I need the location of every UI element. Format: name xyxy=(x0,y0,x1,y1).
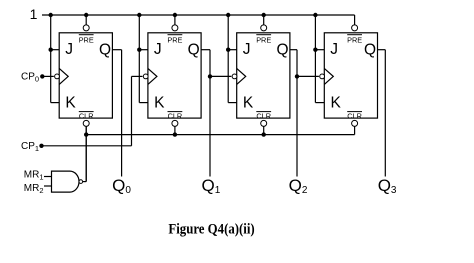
svg-text:J: J xyxy=(154,41,162,58)
svg-text:PRE: PRE xyxy=(256,36,271,45)
svg-text:K: K xyxy=(65,94,76,111)
svg-text:Q: Q xyxy=(364,41,376,58)
svg-text:CLR: CLR xyxy=(256,111,271,120)
svg-text:J: J xyxy=(330,41,338,58)
svg-text:Q: Q xyxy=(188,41,200,58)
svg-text:K: K xyxy=(243,94,254,111)
svg-text:PRE: PRE xyxy=(347,36,362,45)
svg-text:CLR: CLR xyxy=(168,111,183,120)
svg-text:PRE: PRE xyxy=(79,36,94,45)
svg-text:Q: Q xyxy=(276,41,288,58)
svg-text:Figure Q4(a)(ii): Figure Q4(a)(ii) xyxy=(168,221,254,237)
svg-text:1: 1 xyxy=(30,6,38,22)
svg-text:CLR: CLR xyxy=(79,111,94,120)
svg-text:J: J xyxy=(243,41,251,58)
svg-text:K: K xyxy=(154,94,165,111)
svg-text:K: K xyxy=(331,94,342,111)
svg-text:CLR: CLR xyxy=(347,111,362,120)
svg-text:Q: Q xyxy=(99,41,111,58)
svg-text:J: J xyxy=(65,41,73,58)
svg-text:PRE: PRE xyxy=(167,36,182,45)
